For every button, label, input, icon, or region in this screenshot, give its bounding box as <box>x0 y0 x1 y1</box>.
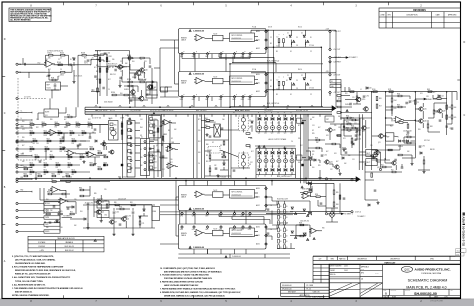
wire conn stub 2 <box>18 119 27 121</box>
svg-text:1K: 1K <box>140 149 142 151</box>
capacitor C192 <box>419 145 425 147</box>
wire relay coil wires <box>326 208 338 222</box>
svg-text:Q23: Q23 <box>271 133 274 135</box>
resistor Rh10 <box>90 148 94 150</box>
resistor Rg11 <box>68 164 72 166</box>
wire psu rails <box>83 205 155 228</box>
svg-text:10: 10 <box>277 37 279 39</box>
wire channel 4 internal <box>205 232 259 236</box>
node Jg1 <box>16 180 18 182</box>
svg-text:P: P <box>184 52 185 54</box>
ic U2C <box>230 76 255 85</box>
wire conn stub 4 <box>18 141 27 143</box>
svg-text:4K7: 4K7 <box>48 69 51 71</box>
wire reg verticals <box>341 83 457 160</box>
svg-text:100: 100 <box>30 174 33 176</box>
svg-text:Q40: Q40 <box>332 130 335 132</box>
svg-text:ALL RIGHTS RESERVED.: ALL RIGHTS RESERVED. <box>10 18 31 21</box>
svg-text:R045 140-ON: R045 140-ON <box>65 246 74 248</box>
svg-text:R21: R21 <box>449 117 452 119</box>
wire bank rail 2 <box>256 148 296 178</box>
transistor Q218 <box>391 161 396 165</box>
capacitor C181 <box>153 158 156 159</box>
node Jf165 <box>16 164 18 166</box>
svg-text:33K: 33K <box>70 135 73 137</box>
title block approvals <box>329 264 460 298</box>
labels above rail A2 <box>268 27 272 29</box>
node P22 <box>205 96 209 102</box>
svg-text:R171: R171 <box>30 169 34 171</box>
node O3 <box>329 56 341 59</box>
svg-text:R210: R210 <box>372 89 376 91</box>
wire reg top rail <box>341 91 457 93</box>
wire input extra3 <box>74 54 120 84</box>
svg-text:R53: R53 <box>206 161 209 163</box>
svg-text:2K21: 2K21 <box>60 75 64 77</box>
svg-text:7915: 7915 <box>98 214 102 216</box>
in labels4 <box>124 89 129 91</box>
svg-text:7815: 7815 <box>98 205 102 207</box>
resistor R260 <box>349 89 354 93</box>
ground G106 <box>112 233 115 236</box>
svg-text:D1: D1 <box>286 80 288 82</box>
svg-text:R172: R172 <box>44 169 48 171</box>
svg-text:GST_2 101-00: GST_2 101-00 <box>118 176 128 178</box>
bus2 end arrow <box>356 177 360 182</box>
svg-text:1K0: 1K0 <box>72 58 75 60</box>
svg-text:C18: C18 <box>338 127 341 129</box>
svg-text:BUS_GST/ST-00: BUS_GST/ST-00 <box>267 60 279 62</box>
svg-text:330: 330 <box>348 155 350 157</box>
transistor Q105 <box>96 210 104 214</box>
connector J6 <box>330 80 341 84</box>
warning triangle W32 <box>307 214 309 216</box>
diode D121 <box>303 209 305 211</box>
capacitor C201 <box>345 152 348 153</box>
svg-text:R154: R154 <box>44 162 48 164</box>
bus2 net name labels <box>62 176 226 178</box>
svg-text:10K: 10K <box>48 58 51 60</box>
capacitor C180 <box>149 148 152 149</box>
svg-text:1K: 1K <box>310 80 312 82</box>
svg-text:R184: R184 <box>24 166 28 168</box>
transistor Q214 <box>361 126 370 130</box>
label r238 <box>430 126 433 128</box>
svg-text:4K7: 4K7 <box>109 67 112 69</box>
svg-text:R190: R190 <box>98 150 102 152</box>
svg-text:R5: R5 <box>270 43 272 45</box>
wire tl verticals <box>98 51 153 105</box>
svg-text:CLIP/PROT: CLIP/PROT <box>333 61 341 63</box>
labels above rail B2 <box>298 69 302 71</box>
svg-text:GP0: GP0 <box>180 99 183 101</box>
labels u112 <box>300 220 309 222</box>
svg-text:2K2: 2K2 <box>198 141 201 143</box>
wire j7 wires <box>328 213 342 215</box>
node O6 <box>329 91 340 94</box>
scatter labels network 30.2 <box>270 37 312 53</box>
dashed outline <box>18 78 46 160</box>
label bus out <box>0 0 1 1</box>
svg-text:R72: R72 <box>46 211 49 213</box>
op-amp U107 <box>58 198 68 204</box>
svg-text:1K0: 1K0 <box>80 211 83 213</box>
capacitor C122 <box>39 161 42 162</box>
resistor R131 <box>124 94 128 96</box>
svg-text:R170: R170 <box>68 162 72 164</box>
svg-text:J6: J6 <box>331 81 333 83</box>
ground G110 <box>410 162 413 165</box>
bus band 2 <box>60 178 356 180</box>
capacitor C160 <box>350 103 351 106</box>
label pad 32 <box>256 204 260 207</box>
wire bus rails 3 <box>40 200 293 215</box>
svg-text:GP4: GP4 <box>232 229 235 231</box>
svg-text:C18: C18 <box>426 96 429 98</box>
resistor R121 <box>127 55 132 59</box>
svg-text:C30 C31 D9: C30 C31 D9 <box>118 199 126 201</box>
svg-text:C2: C2 <box>310 94 312 96</box>
svg-text:CM30: CM30 <box>45 217 49 219</box>
resistor R299 <box>119 66 123 68</box>
wire out rail 1 <box>306 182 334 184</box>
capacitor C151 <box>343 198 346 199</box>
wire vertical feeds B <box>268 73 321 107</box>
svg-text:R5: R5 <box>270 86 272 88</box>
resistor Rh4 <box>66 175 70 177</box>
resistor R261 <box>356 96 358 100</box>
resistor Rg7 <box>72 140 76 142</box>
label conn 3 <box>21 126 25 128</box>
svg-text:10K: 10K <box>338 116 340 118</box>
relay contact X2 <box>309 212 312 215</box>
svg-text:1K0: 1K0 <box>38 62 41 64</box>
svg-text:R45: R45 <box>50 119 53 121</box>
svg-text:1K0: 1K0 <box>64 151 67 153</box>
svg-text:1K0: 1K0 <box>336 135 339 137</box>
wire conn stub 6 <box>18 166 27 168</box>
node OUT1 <box>351 179 353 181</box>
svg-text:00-000101-00: 00-000101-00 <box>232 233 242 235</box>
node OUT3 <box>379 168 381 170</box>
svg-text:1K0: 1K0 <box>105 215 108 217</box>
resistor R274 <box>67 114 72 117</box>
parts list item rows <box>313 264 329 283</box>
svg-text:220: 220 <box>198 130 201 132</box>
label pad 41 <box>256 234 260 237</box>
label bus B <box>267 103 279 105</box>
wire join wires <box>90 40 179 97</box>
svg-text:+55_CH 101: +55_CH 101 <box>264 110 273 112</box>
capacitor C109 <box>54 85 57 86</box>
svg-text:USED ON: USED ON <box>313 292 320 294</box>
wire reg left rails <box>337 118 372 155</box>
label r239 <box>436 112 439 114</box>
labels bank row 2 <box>258 156 293 158</box>
connector J5 pins <box>144 141 154 171</box>
svg-text:R144: R144 <box>44 130 48 132</box>
node J2-8 <box>16 191 18 193</box>
svg-text:100K: 100K <box>44 135 47 137</box>
field resistor labels <box>30 122 64 169</box>
svg-text:GP3: GP3 <box>219 99 222 101</box>
resistor Rh1 <box>24 175 28 177</box>
svg-text:Q15: Q15 <box>423 109 426 111</box>
capacitor C171 <box>221 128 224 129</box>
svg-text:Q9: Q9 <box>114 222 116 224</box>
label conn 7 <box>21 177 24 179</box>
resistor R109 <box>94 54 98 56</box>
svg-text:10K: 10K <box>316 142 319 144</box>
warning triangle WB2 <box>307 83 309 85</box>
svg-text:D8: D8 <box>140 135 142 137</box>
resistor R201 <box>333 190 335 194</box>
section label C-000000-00 #4 <box>193 247 204 249</box>
capacitor C131 <box>53 206 56 207</box>
svg-text:TO SHEET 2: TO SHEET 2 <box>349 57 358 59</box>
svg-text:S1-1-00001-00 ▮ REV ▮▮: S1-1-00001-00 ▮ REV ▮▮ <box>461 212 465 246</box>
label out1 <box>355 180 361 182</box>
resistor Rf4 <box>30 132 34 134</box>
svg-text:Q9: Q9 <box>312 154 314 156</box>
wire +15 stub <box>91 58 100 60</box>
svg-text:PL 2.4MB: PL 2.4MB <box>307 285 314 287</box>
svg-text:2K7: 2K7 <box>82 135 85 137</box>
label r261 <box>359 98 362 100</box>
dotted bias <box>208 147 220 154</box>
svg-text:R36: R36 <box>397 93 400 95</box>
resistor Rf11 <box>60 148 64 150</box>
svg-text:R95: R95 <box>312 151 315 153</box>
svg-text:C5: C5 <box>108 89 110 91</box>
ground G109 <box>283 146 286 149</box>
svg-text:Z3: Z3 <box>296 37 298 39</box>
svg-text:4K7: 4K7 <box>94 67 97 69</box>
wire conn stub 3 <box>18 127 27 129</box>
resistor R106 <box>58 64 62 66</box>
wire midcol wires <box>150 120 158 178</box>
capacitor C191 <box>451 128 454 129</box>
wire conn stub 8 <box>18 191 27 193</box>
svg-text:R65: R65 <box>454 117 457 119</box>
svg-text:R95: R95 <box>312 133 315 135</box>
wire v rails mid <box>100 54 107 96</box>
label pad 10 <box>256 30 260 33</box>
capacitor C182 <box>215 168 218 169</box>
labels reg misc <box>403 131 412 133</box>
svg-text:R107 C6: R107 C6 <box>95 51 101 53</box>
node P46 <box>248 226 252 232</box>
ic U1C <box>230 33 255 42</box>
resistor R195 <box>206 127 210 129</box>
capacitor C169 <box>401 167 404 168</box>
node O2 <box>329 48 341 51</box>
svg-text:R93: R93 <box>315 137 318 139</box>
svg-text:TL072: TL072 <box>213 190 217 192</box>
svg-text:D3: D3 <box>22 153 24 155</box>
capacitor C127 <box>89 137 92 138</box>
svg-text:C90: C90 <box>366 95 369 97</box>
ground G102 <box>62 146 65 149</box>
wire rm verticals <box>301 114 309 183</box>
label r219 <box>417 102 419 104</box>
svg-text:9. TN-SUB DIODES D713, 71A AND: 9. TN-SUB DIODES D713, 71A AND 71A ARE S… <box>160 274 209 277</box>
resistor R203 <box>339 195 341 199</box>
svg-text:R90: R90 <box>346 128 349 130</box>
wire reg q wires <box>415 103 423 128</box>
svg-text:C36: C36 <box>60 227 63 229</box>
revisions table <box>379 8 461 28</box>
wire conn stub 5 <box>18 155 27 157</box>
connector box J5 <box>141 136 150 175</box>
resistor R122 <box>140 57 144 59</box>
resistor R302 <box>300 235 304 237</box>
scatter labels input <box>46 59 142 78</box>
svg-text:QTY: QTY <box>319 258 322 260</box>
svg-text:GP1: GP1 <box>192 229 195 231</box>
label conn 8 <box>21 190 24 192</box>
svg-text:L1: L1 <box>360 89 362 91</box>
title block number row <box>383 289 461 298</box>
node P32 <box>205 212 209 218</box>
node P45 <box>241 226 245 232</box>
ground G105 <box>100 219 103 222</box>
transistor Q106 <box>121 217 129 221</box>
svg-text:12V: 12V <box>148 94 151 96</box>
svg-text:1K0: 1K0 <box>132 61 135 63</box>
resistor R255 <box>351 117 356 120</box>
section label C-000000-00 #1 <box>193 30 204 32</box>
svg-text:D1: D1 <box>290 94 292 96</box>
capacitor C150 <box>320 203 323 204</box>
svg-text:TYPES, 10% ON OTHER TYPES.: TYPES, 10% ON OTHER TYPES. <box>15 281 44 283</box>
svg-text:R52: R52 <box>36 127 39 129</box>
svg-text:C8: C8 <box>296 45 298 47</box>
svg-text:D14: D14 <box>441 96 444 98</box>
svg-text:4K7: 4K7 <box>336 161 339 163</box>
svg-text:D26: D26 <box>290 156 293 158</box>
capacitor C168 <box>439 120 442 121</box>
channel section box U3 <box>179 186 267 211</box>
svg-text:10K: 10K <box>140 165 142 167</box>
bus label 2 <box>277 176 290 178</box>
svg-text:P: P <box>184 95 185 97</box>
svg-text:C21: C21 <box>22 129 25 131</box>
node Jf133 <box>16 132 18 134</box>
svg-text:6. ZENERS D708, D917 AND D613,: 6. ZENERS D708, D917 AND D613, MARKED 7.… <box>160 291 241 294</box>
wire q102 wires <box>128 85 140 98</box>
transistor Q210 <box>355 97 365 101</box>
resistor R104 <box>48 52 53 56</box>
svg-text:R70: R70 <box>119 206 122 208</box>
svg-text:SHEET: SHEET <box>434 297 439 299</box>
svg-text:22K: 22K <box>30 135 33 137</box>
wire input extra <box>78 54 104 65</box>
svg-text:REV: REV <box>388 14 391 16</box>
svg-text:R187: R187 <box>104 154 108 156</box>
resistor R303 <box>304 192 308 194</box>
svg-text:1K0: 1K0 <box>46 199 49 201</box>
bus junction labels2 <box>120 118 124 120</box>
transistor bank row 2 <box>258 157 295 165</box>
svg-text:D14: D14 <box>277 123 280 125</box>
resistor RB2 <box>283 81 285 85</box>
resistor Rg8 <box>68 156 72 158</box>
node J20 <box>265 73 268 76</box>
svg-text:R143: R143 <box>30 130 34 132</box>
scatter labels output area <box>156 119 319 171</box>
svg-text:C9: C9 <box>60 69 62 71</box>
svg-text:ON-RESISTANCE 0.03 OHMS MAX.: ON-RESISTANCE 0.03 OHMS MAX. <box>15 262 46 265</box>
transistor Q30 <box>111 127 116 139</box>
svg-text:R153: R153 <box>30 162 34 164</box>
svg-text:Z1: Z1 <box>287 33 289 35</box>
resistor R266 <box>406 134 411 138</box>
resistor R273 <box>128 85 132 87</box>
svg-text:RLY: RLY <box>148 86 151 88</box>
resistor R251 <box>153 132 155 136</box>
warning triangle W34 <box>307 238 309 240</box>
resistor R190 <box>246 133 250 135</box>
svg-text:RLY2: RLY2 <box>367 162 371 164</box>
svg-text:D5: D5 <box>51 179 53 181</box>
svg-text:+55V: +55V <box>326 28 330 30</box>
capacitor C167 <box>409 100 415 102</box>
label pad 40 <box>256 226 260 229</box>
connector box J4 <box>127 118 135 177</box>
in labels <box>47 51 63 53</box>
svg-text:R74: R74 <box>70 211 73 213</box>
svg-text:C92: C92 <box>422 145 425 147</box>
svg-text:FB2: FB2 <box>21 190 24 192</box>
svg-text:DESCRIPTION: DESCRIPTION <box>407 14 419 16</box>
wire drops to bus1 <box>226 30 336 107</box>
labels bank top <box>258 112 292 114</box>
label C100 B <box>309 88 314 90</box>
svg-text:D2: D2 <box>171 138 173 140</box>
node P31 <box>192 212 196 218</box>
bus junction labels <box>92 118 101 120</box>
svg-text:Q41: Q41 <box>329 162 332 164</box>
svg-text:R80: R80 <box>47 191 50 193</box>
wire rail +V B <box>251 72 336 74</box>
svg-text:820: 820 <box>60 143 63 145</box>
label r271 <box>142 223 145 225</box>
wire channel 1 internal <box>205 37 259 41</box>
warning triangle W33 <box>295 236 297 238</box>
svg-text:8. PARTS ENCLOSED WITHIN DOTTE: 8. PARTS ENCLOSED WITHIN DOTTED OUTLINE <box>160 281 203 284</box>
diode D214 <box>438 95 444 98</box>
resistor R110 <box>99 58 101 62</box>
capacitor C111 <box>146 94 149 95</box>
resistor R215 <box>337 112 341 114</box>
diode D120 <box>291 207 293 209</box>
resistor R301 <box>299 222 304 226</box>
labels reg misc2 <box>390 126 393 128</box>
resistor R113 <box>106 68 108 72</box>
resistor Rg2 <box>76 124 80 126</box>
svg-text:C: C <box>4 112 6 115</box>
svg-text:1K5: 1K5 <box>154 87 157 89</box>
resistor R120 <box>151 85 153 89</box>
resistor Rh2 <box>38 175 42 177</box>
diode D213 <box>352 143 354 145</box>
labels q bank row 2 <box>258 166 293 168</box>
svg-text:2K0: 2K0 <box>78 135 81 137</box>
left border zone ticks <box>2 38 6 263</box>
svg-text:R17: R17 <box>132 93 135 95</box>
svg-text:4K7: 4K7 <box>433 92 436 94</box>
